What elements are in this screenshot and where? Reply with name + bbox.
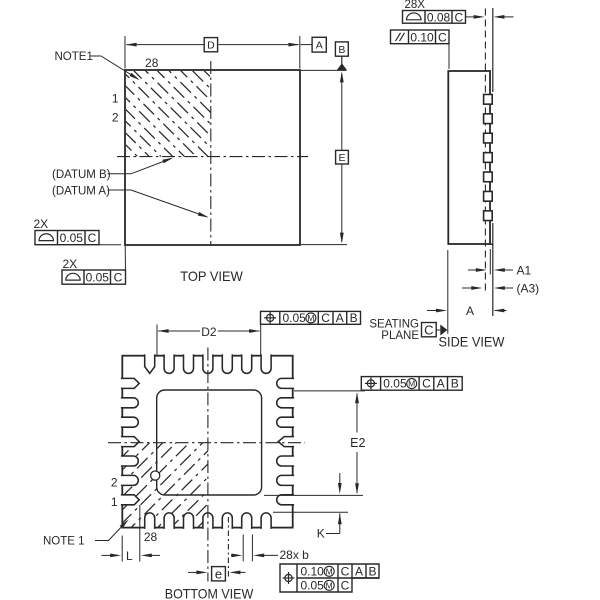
dimension E line with arrows xyxy=(341,74,343,150)
extension line to seating plane symbol xyxy=(447,250,449,334)
bottom view vertical centerline xyxy=(207,348,209,582)
svg-text:(DATUM B): (DATUM B) xyxy=(52,169,111,181)
svg-text:B: B xyxy=(338,44,345,56)
svg-text:e: e xyxy=(215,566,222,581)
dimension K xyxy=(339,473,341,486)
2X profile tolerance frame (left edge) xyxy=(62,270,126,284)
left column terminals xyxy=(121,378,139,388)
datum C box xyxy=(422,323,437,337)
svg-text:C: C xyxy=(341,578,350,592)
svg-text:28: 28 xyxy=(145,56,159,70)
side view package body xyxy=(448,71,490,244)
svg-text:1: 1 xyxy=(111,495,118,509)
2X profile tolerance frame (bottom edge) xyxy=(35,231,99,245)
svg-text:B: B xyxy=(350,311,358,325)
svg-text:A1: A1 xyxy=(517,264,532,278)
svg-text:A: A xyxy=(355,564,363,578)
svg-text:C: C xyxy=(422,377,431,391)
dashed lead-plane line xyxy=(484,9,486,293)
dimension D extension lines xyxy=(124,36,126,69)
bottom row terminals xyxy=(145,513,155,529)
svg-text:A: A xyxy=(466,304,474,318)
svg-text:C: C xyxy=(424,322,433,337)
top row terminals xyxy=(145,354,155,373)
svg-text:D2: D2 xyxy=(201,325,217,339)
svg-text:A: A xyxy=(316,39,323,51)
dimension e arrows and box xyxy=(188,571,200,573)
(DATUM B) label and leader xyxy=(108,159,171,174)
short line below body xyxy=(489,249,491,275)
svg-text:SEATING: SEATING xyxy=(369,319,419,331)
dimension (A3) xyxy=(462,287,473,289)
svg-text:M: M xyxy=(307,313,314,323)
svg-text:A: A xyxy=(437,377,445,391)
dimension L arrows and label xyxy=(102,554,114,556)
svg-text:M: M xyxy=(326,580,333,590)
svg-text:E: E xyxy=(338,152,345,164)
exposed thermal pad outline xyxy=(157,390,262,495)
(DATUM A) label and leader xyxy=(108,190,207,217)
svg-text:C: C xyxy=(438,30,447,44)
svg-text:2X: 2X xyxy=(34,217,49,231)
dimension A1 xyxy=(468,269,479,271)
svg-text:2: 2 xyxy=(112,111,119,125)
bottom view horizontal centerline xyxy=(108,442,305,444)
svg-text:A: A xyxy=(336,311,344,325)
dimension L extension lines xyxy=(121,536,123,562)
svg-text:0.05: 0.05 xyxy=(86,270,110,284)
datum A label box xyxy=(312,37,326,52)
position tolerance frame (E2) xyxy=(361,377,462,391)
svg-text:0.08: 0.08 xyxy=(427,10,451,24)
svg-text:(A3): (A3) xyxy=(517,282,540,296)
side view leads (7 pins) xyxy=(484,94,493,104)
svg-text:SIDE VIEW: SIDE VIEW xyxy=(439,334,506,350)
svg-text:B: B xyxy=(451,377,459,391)
svg-text:0.05: 0.05 xyxy=(283,311,307,325)
svg-text:C: C xyxy=(114,270,123,284)
seating plane line xyxy=(492,8,494,92)
svg-text:0.10: 0.10 xyxy=(301,564,325,578)
svg-text:K: K xyxy=(317,527,325,541)
svg-text:28X: 28X xyxy=(405,0,426,11)
svg-text:NOTE1: NOTE1 xyxy=(55,51,93,63)
NOTE 1 label and leader arrow xyxy=(95,521,127,540)
position tolerance frame (D2) xyxy=(261,311,361,324)
top view horizontal centerline xyxy=(117,156,308,158)
dimension b extension lines xyxy=(242,535,244,562)
svg-text:0.05: 0.05 xyxy=(301,578,325,592)
top edge extension line to E dimension xyxy=(301,69,346,71)
pad pin-1 dimple xyxy=(151,471,160,480)
dimension A xyxy=(427,310,439,312)
svg-text:M: M xyxy=(326,566,333,576)
dimension D2 extension lines xyxy=(156,325,158,357)
svg-text:C: C xyxy=(321,311,330,325)
svg-text:2X: 2X xyxy=(63,257,78,271)
svg-text:28x b: 28x b xyxy=(280,548,310,562)
dimension E2 extension lines xyxy=(294,390,365,392)
dimension D label box xyxy=(204,38,217,52)
seating plane triangle symbol xyxy=(436,329,440,331)
dimension E label box xyxy=(336,150,349,164)
svg-text:0.05: 0.05 xyxy=(60,231,84,245)
dimension b arrows and 28x b label xyxy=(231,554,235,556)
svg-text:2: 2 xyxy=(111,476,118,490)
datum B label box and triangle xyxy=(335,42,348,56)
svg-text:1: 1 xyxy=(112,92,119,106)
leader from parallelism frame to package xyxy=(448,44,450,69)
NOTE1 label and leader arrow xyxy=(91,56,138,79)
lead coplanarity arrows xyxy=(466,16,477,18)
dimension D line xyxy=(127,44,204,46)
dimension D2 line xyxy=(158,330,200,332)
svg-text:(DATUM A): (DATUM A) xyxy=(52,186,110,198)
svg-text:PLANE: PLANE xyxy=(381,330,419,342)
TOP VIEW package outline xyxy=(125,70,300,245)
28X profile tolerance frame xyxy=(403,11,466,24)
svg-text:L: L xyxy=(126,549,133,563)
pitch e dashed extension line xyxy=(227,517,229,577)
svg-text:D: D xyxy=(207,39,215,51)
BOTTOM VIEW package outline xyxy=(122,356,292,528)
right column terminals xyxy=(277,378,294,388)
svg-text:C: C xyxy=(454,10,463,24)
top view vertical centerline xyxy=(210,61,212,244)
svg-text:TOP VIEW: TOP VIEW xyxy=(180,268,243,284)
svg-text:0.10: 0.10 xyxy=(410,30,434,44)
svg-text:B: B xyxy=(368,564,376,578)
svg-text:28: 28 xyxy=(144,530,158,544)
composite position tolerance frame xyxy=(280,564,379,592)
svg-text:E2: E2 xyxy=(350,436,365,450)
parallelism tolerance frame xyxy=(391,30,450,44)
bottom edge extension line xyxy=(301,244,347,246)
svg-text:0.05: 0.05 xyxy=(383,377,407,391)
body bottom edge extension to seating line xyxy=(490,243,493,245)
svg-text:BOTTOM VIEW: BOTTOM VIEW xyxy=(165,586,254,600)
svg-text:NOTE 1: NOTE 1 xyxy=(43,536,85,548)
svg-text:C: C xyxy=(341,564,350,578)
dimension E2 line xyxy=(356,394,358,433)
svg-text:C: C xyxy=(88,231,97,245)
svg-text:M: M xyxy=(408,379,415,389)
